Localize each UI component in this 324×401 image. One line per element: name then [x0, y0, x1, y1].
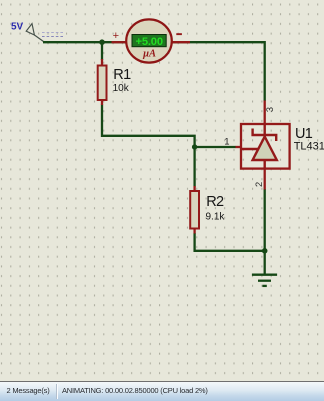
power terminal symbol	[26, 24, 44, 42]
node at 5V/R1 junction dot	[99, 39, 105, 45]
wire R1 branch down-right to node A	[102, 42, 195, 147]
U1 internal cathode bar with hooks	[253, 129, 277, 142]
U1 internal reference lead	[241, 148, 259, 150]
svg-text:10k: 10k	[113, 83, 130, 94]
resistor R1 bottom pin	[101, 100, 103, 106]
svg-text:9.1k: 9.1k	[206, 212, 226, 223]
U1 internal anode lead	[264, 160, 266, 169]
ground	[252, 275, 277, 286]
U1 pin 3	[264, 101, 266, 125]
ammeter left pin	[112, 41, 128, 43]
status bar	[0, 381, 324, 401]
U1 pin 1	[236, 146, 242, 148]
ammeter display	[132, 35, 166, 47]
svg-text:+: +	[113, 30, 119, 42]
resistor R2 top pin	[193, 186, 195, 192]
U1 internal triangle	[253, 137, 277, 160]
wire U1 pin 2 down to ground node	[264, 189, 266, 251]
svg-text:R2: R2	[206, 194, 224, 210]
svg-text:TL431: TL431	[294, 141, 324, 153]
svg-text:1: 1	[224, 136, 229, 147]
svg-text:R1: R1	[113, 67, 131, 83]
svg-text:µA: µA	[142, 49, 156, 60]
wire top horizontal from 5V terminal to right corner and down	[43, 42, 265, 101]
ammeter body	[126, 19, 172, 62]
U1 internal cathode lead	[264, 124, 266, 137]
svg-text:5V: 5V	[11, 22, 24, 33]
resistor R1 body	[98, 66, 107, 101]
wire ground stem	[264, 251, 266, 274]
wire node A to U1 pin 1	[195, 146, 236, 148]
op-amp U1 body box	[241, 124, 290, 169]
status cell animating	[62, 382, 208, 399]
resistor R2 body	[190, 191, 199, 229]
resistor R1 top pin	[101, 59, 103, 66]
hidden property text dashes	[42, 32, 65, 36]
U1 pin 2	[264, 169, 266, 190]
svg-text:+5.00: +5.00	[136, 36, 163, 48]
wire node A down to R2	[193, 147, 195, 187]
resistor R2 bottom pin	[193, 228, 195, 234]
U1 pin 2 number	[255, 182, 261, 186]
U1 pin 3 number	[266, 107, 273, 111]
ammeter - mark	[176, 33, 182, 35]
status cell messages	[0, 382, 56, 399]
wire R2 bottom to ground node	[195, 233, 265, 251]
ammeter right pin	[171, 41, 190, 43]
ground node junction dot	[262, 248, 268, 254]
node A junction dot	[192, 144, 197, 149]
